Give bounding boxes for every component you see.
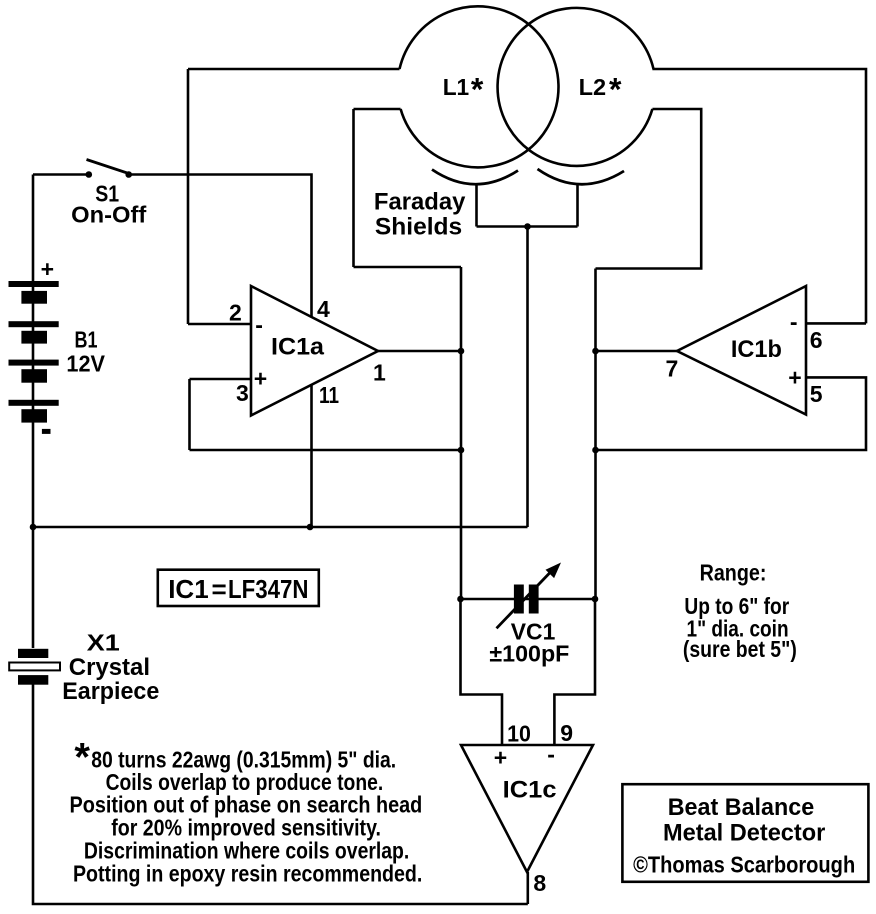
wire: left rail x=33 battery top	[32, 175, 35, 282]
svg-text:12V: 12V	[66, 351, 105, 377]
wire: L2 lower lead	[596, 109, 702, 269]
battery B1 short plate 4	[21, 409, 47, 422]
svg-text:Potting in epoxy resin recomme: Potting in epoxy resin recommended.	[73, 860, 422, 886]
wire: top wire L1 to left vertical	[188, 68, 400, 71]
wire: top wire L2 to right rail	[652, 69, 866, 323]
svg-text:On-Off: On-Off	[71, 201, 146, 227]
junction dot right feedback	[592, 447, 599, 454]
variable capacitor VC1 right plate	[529, 585, 539, 614]
wire: pin 3 feedback horizontal to output node	[190, 449, 462, 452]
wire: staircase VC1-left to pin 10	[461, 599, 503, 745]
earpiece X1 top plate	[18, 649, 48, 658]
junction dot shield center	[524, 223, 531, 230]
wire: pin 5 stub and right feedback	[596, 377, 867, 450]
svg-text:*: *	[609, 72, 622, 108]
battery B1 long plate 2	[9, 321, 59, 327]
wire: shield center drop to V- rail	[526, 227, 529, 528]
wire: left vertical down to pin 2	[187, 69, 190, 324]
svg-text:-: -	[255, 312, 263, 338]
svg-text:Range:: Range:	[700, 560, 767, 586]
battery B1 long plate 3	[9, 360, 59, 366]
svg-text:+: +	[788, 364, 801, 390]
wire: IC1a output pin 1	[378, 350, 461, 353]
svg-text:IC1c: IC1c	[503, 776, 557, 803]
battery B1 short plate 1	[21, 291, 47, 304]
svg-text:5: 5	[810, 381, 823, 407]
wire: pin 3 stub	[190, 378, 252, 381]
junction dot V- rail left	[30, 524, 37, 531]
svg-text:L1: L1	[443, 74, 470, 100]
op-amp IC1c triangle	[461, 745, 593, 872]
wire: shield left lead	[475, 184, 478, 227]
wire: pin 2 stub	[188, 323, 251, 326]
wire: pin 3 feedback vertical	[188, 379, 191, 450]
svg-text:*: *	[471, 72, 484, 108]
junction dot switch right	[125, 171, 132, 178]
wire: shield right lead	[576, 184, 579, 227]
svg-text:IC1b: IC1b	[731, 336, 782, 363]
wire: L1 lower lead vertical	[352, 109, 355, 267]
junction dot IC1b output	[592, 348, 599, 355]
junction dot left feedback	[458, 447, 465, 454]
wire: IC1b output node vertical x=595.5	[594, 269, 597, 600]
junction dot VC1 right	[592, 596, 599, 603]
wire: battery to switch	[33, 173, 89, 176]
wire: left rail below X1 and bottom rail	[33, 684, 528, 904]
svg-text:±100pF: ±100pF	[489, 640, 569, 666]
wire: battery internal	[32, 287, 35, 648]
svg-text:1: 1	[373, 359, 386, 385]
wire: pin 6 stub	[806, 322, 866, 325]
variable capacitor VC1 arrow line	[497, 571, 553, 629]
svg-text:3: 3	[236, 380, 249, 406]
svg-text:X1: X1	[87, 630, 120, 656]
svg-text:9: 9	[560, 720, 573, 746]
svg-text:Earpiece: Earpiece	[62, 678, 159, 705]
svg-text:-: -	[790, 309, 798, 335]
svg-text:11: 11	[319, 382, 339, 408]
svg-text:IC1a: IC1a	[271, 334, 325, 361]
junction dot VC1 left	[457, 596, 464, 603]
svg-text:-: -	[547, 741, 555, 767]
svg-text:8: 8	[533, 870, 546, 896]
svg-text:IC1: IC1	[168, 574, 208, 604]
faraday shield arc left	[432, 170, 518, 185]
wire: L1 lower lead bottom horizontal	[354, 266, 462, 269]
wire: staircase VC1-right to pin 9	[554, 599, 595, 745]
svg-text:10: 10	[507, 720, 531, 746]
svg-text:=: =	[212, 574, 227, 604]
svg-text:+: +	[41, 256, 54, 282]
wire: V- rail y=527	[33, 526, 528, 529]
op-amp IC1b triangle	[677, 286, 806, 415]
junction dot V- rail pin11	[307, 524, 314, 531]
wire: pin 11 vertical	[310, 384, 313, 527]
wire: switch to pin 4 corner	[129, 175, 312, 318]
svg-text:Shields: Shields	[375, 213, 462, 240]
svg-text:Beat Balance: Beat Balance	[668, 794, 815, 821]
battery B1 long plate 1	[9, 281, 59, 287]
variable capacitor VC1 arrowhead	[546, 563, 562, 579]
earpiece X1 middle plate outlined	[9, 663, 60, 671]
earpiece X1 bottom plate	[18, 675, 48, 685]
battery B1 short plate 2	[21, 331, 47, 344]
coil L1	[400, 6, 559, 167]
faraday shield arc right	[538, 169, 625, 184]
coil L2	[498, 8, 654, 166]
battery B1 short plate 3	[21, 369, 47, 383]
svg-text:B1: B1	[75, 327, 98, 353]
op-amp IC1a triangle	[251, 286, 378, 416]
battery B1 long plate 4	[9, 400, 59, 406]
svg-text:2: 2	[229, 299, 242, 325]
svg-text:LF347N: LF347N	[228, 574, 309, 604]
svg-text:4: 4	[317, 296, 330, 322]
svg-text:*: *	[74, 736, 90, 780]
svg-text:©Thomas Scarborough: ©Thomas Scarborough	[633, 852, 855, 878]
svg-text:6: 6	[810, 327, 823, 353]
svg-text:Metal Detector: Metal Detector	[663, 819, 825, 846]
switch S1 lever	[87, 160, 129, 174]
box Beat Balance	[622, 784, 868, 882]
junction dot switch left	[86, 171, 93, 178]
svg-text:Crystal: Crystal	[69, 654, 150, 681]
wire: IC1b output pin 7	[596, 350, 678, 353]
label battery minus	[42, 429, 51, 434]
wire: pin 8 output	[526, 872, 529, 904]
wire: IC1a output vertical node x=461	[460, 267, 463, 599]
wire: VC1 horizontal	[461, 598, 596, 601]
svg-text:7: 7	[666, 355, 679, 381]
variable capacitor VC1 left plate	[514, 585, 524, 614]
svg-text:+: +	[254, 366, 267, 392]
svg-text:Faraday: Faraday	[374, 188, 466, 215]
wire: shield joining bar	[477, 225, 578, 228]
box IC1 = LF347N	[158, 570, 319, 606]
junction dot IC1a output	[458, 348, 465, 355]
svg-text:L2: L2	[579, 74, 607, 100]
svg-text:(sure bet 5"): (sure bet 5")	[683, 636, 797, 662]
svg-text:+: +	[494, 745, 507, 771]
wire: L1 lower lead horizontal	[354, 108, 401, 111]
